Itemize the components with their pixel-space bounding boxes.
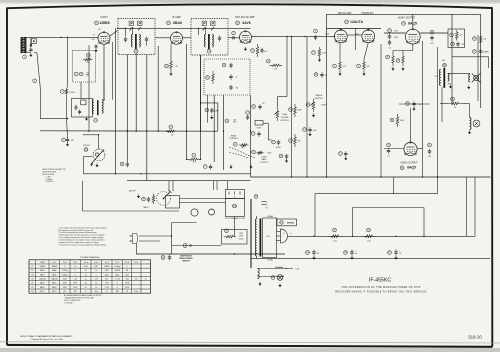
AC plug P1 xyxy=(130,234,138,244)
gnd bass 1 xyxy=(229,165,232,169)
vert x424 xyxy=(423,208,425,237)
phase inv tube V4B xyxy=(362,29,375,43)
cap C20 elect 30 xyxy=(406,101,421,111)
cap C14b xyxy=(279,154,288,163)
resistor R27 2.2M xyxy=(312,47,327,58)
wire rect to bus xyxy=(288,235,301,237)
gnd osc xyxy=(85,117,88,121)
speaker plug inner box xyxy=(226,199,245,217)
cap C3 .047 xyxy=(62,137,74,143)
resistor R7 1meg xyxy=(60,88,75,96)
selector shelf wire xyxy=(83,181,180,211)
resistor R1b xyxy=(30,43,32,47)
svg-text:1.2Meg: 1.2Meg xyxy=(114,266,120,268)
T2 trimmer arrows xyxy=(203,27,215,31)
label BASS CONTROL xyxy=(229,134,238,140)
bass linkage dashed xyxy=(230,147,255,158)
svg-text:1 MEG: 1 MEG xyxy=(69,92,75,94)
svg-text:2o: 2o xyxy=(95,283,97,285)
filter resistor R41 1.5K xyxy=(362,228,376,242)
pilot lamp PL1 xyxy=(271,275,283,281)
wire T3 to SP1 top xyxy=(448,72,470,74)
vert x466 xyxy=(466,177,468,236)
T2 trimmer 2 xyxy=(211,21,215,25)
cap C8 xyxy=(251,131,260,137)
wire R1 chain xyxy=(30,37,32,46)
svg-text:V1: V1 xyxy=(31,266,33,268)
T2 primary coil xyxy=(204,35,205,48)
wire plate V1 to T1 xyxy=(118,28,126,36)
svg-text:V5: V5 xyxy=(31,283,33,285)
V4B grid return xyxy=(354,29,356,51)
resistor R6b 82K xyxy=(289,134,302,147)
tube id V6 6AQ5 xyxy=(400,166,416,170)
bass control pot xyxy=(233,142,248,148)
wire V3 plate right xyxy=(252,36,263,38)
AVC filter box dashed xyxy=(73,51,96,82)
cap C36 xyxy=(142,197,151,203)
grid resistor labels V5 xyxy=(394,31,399,40)
svg-text:VOLUME: VOLUME xyxy=(281,117,289,119)
cathode resistor R3 xyxy=(165,58,178,72)
tuning gang C23 xyxy=(93,149,105,161)
converter tube V1 xyxy=(98,31,110,44)
svg-text:L1: L1 xyxy=(247,112,249,114)
svg-text:2o: 2o xyxy=(74,266,76,268)
svg-text:36: 36 xyxy=(473,38,475,40)
border frame top xyxy=(7,4,492,8)
svg-text:26: 26 xyxy=(387,57,389,59)
gnd pilot xyxy=(278,283,281,287)
svg-text:40MFD: 40MFD xyxy=(483,52,489,54)
cap C33 005 xyxy=(451,42,465,48)
svg-text:Pin 2: Pin 2 xyxy=(63,262,67,264)
circled 22 in AVC box xyxy=(86,53,90,57)
filament winding xyxy=(258,269,260,279)
svg-text:6BA6: 6BA6 xyxy=(52,269,56,272)
cap C10 470 xyxy=(428,143,432,158)
svg-text:.0047: .0047 xyxy=(313,130,317,132)
tube id V5 6AQ5 xyxy=(402,21,417,25)
12AU7 plate rail xyxy=(327,28,382,30)
bottom rail right xyxy=(251,258,491,260)
svg-text:TREBLE: TREBLE xyxy=(315,95,323,97)
switch B cap xyxy=(161,254,171,260)
V5 cathode drop xyxy=(393,44,413,53)
svg-text:2o: 2o xyxy=(95,287,97,289)
svg-text:15: 15 xyxy=(106,291,108,293)
svg-text:V2: V2 xyxy=(31,270,33,272)
svg-text:1 MEG: 1 MEG xyxy=(282,114,288,116)
svg-text:0: 0 xyxy=(75,270,76,272)
svg-text:2o: 2o xyxy=(85,270,87,272)
gnd C3 xyxy=(66,143,69,147)
label 1MEG BASS CONTROL xyxy=(260,156,269,164)
wire vertical x158 xyxy=(157,46,159,131)
svg-text:FM POSITIONS:: FM POSITIONS: xyxy=(42,174,55,176)
drop to selector 1 xyxy=(168,181,170,192)
horizontal wire y131 xyxy=(40,130,218,132)
volume control pot xyxy=(275,108,290,122)
power transformer primary xyxy=(255,216,256,259)
AVC slant wire xyxy=(34,53,40,88)
wire V6 row xyxy=(384,148,404,150)
AVC corner wire xyxy=(40,88,68,119)
horizontal wire y103 xyxy=(201,102,218,104)
T2 trimmer 1 xyxy=(202,21,206,25)
wire AVC box down xyxy=(80,82,82,99)
label TREBLE CONTROL xyxy=(314,95,323,100)
svg-text:© Howard W. Sams & Co., Inc. 1: © Howard W. Sams & Co., Inc. 1956 xyxy=(30,338,63,341)
wire vertical x287 xyxy=(286,37,288,93)
treble control pot xyxy=(306,99,315,112)
svg-text:40: 40 xyxy=(317,253,319,255)
wire plug to box xyxy=(139,236,172,241)
V1 pin labels xyxy=(91,28,101,41)
svg-text:470: 470 xyxy=(428,156,431,158)
resistor selector xyxy=(152,194,155,205)
V3 cathode gnd xyxy=(244,47,247,51)
wire vertical x437 xyxy=(437,47,439,177)
V3 grid cap xyxy=(232,31,236,39)
cap 40MFD on right edge xyxy=(473,48,490,55)
IF transformer T2 box xyxy=(191,19,228,56)
svg-text:150: 150 xyxy=(193,162,196,164)
svg-text:.047: .047 xyxy=(71,140,75,142)
vert x393 xyxy=(393,177,395,194)
svg-text:5.8K*: 5.8K* xyxy=(94,266,99,268)
svg-text:37: 37 xyxy=(473,51,475,53)
resistor R34 470K xyxy=(390,114,405,127)
volume pot feed xyxy=(278,93,288,108)
T1 trimmer 1 xyxy=(129,21,133,25)
cap C12b .05 xyxy=(252,103,265,110)
svg-text:2o: 2o xyxy=(85,283,87,285)
phono box outline xyxy=(172,223,197,255)
svg-text:BASS: BASS xyxy=(231,134,237,137)
audio output tube V5 xyxy=(405,28,420,44)
svg-text:0: 0 xyxy=(96,274,97,276)
wire vertical x104 osc xyxy=(103,81,105,100)
table footnotes xyxy=(64,294,102,304)
svg-text:8: 8 xyxy=(85,291,86,293)
svg-text:B: B xyxy=(234,197,235,199)
resistor R26 in box xyxy=(206,71,215,84)
filter resistor R40 1.2K xyxy=(328,228,342,242)
svg-text:N1: N1 xyxy=(266,202,268,204)
wire V4A to V4B xyxy=(347,34,362,36)
V1 bypass cap xyxy=(94,44,97,52)
resistor R37 line cord xyxy=(224,229,245,240)
svg-text:1M 7: 1M 7 xyxy=(91,39,95,41)
svg-text:2o: 2o xyxy=(85,287,87,289)
gnd filament xyxy=(258,282,261,286)
wire bus to V4A xyxy=(262,36,334,38)
wire vertical x295 xyxy=(291,37,293,177)
tone tap circle xyxy=(225,119,237,124)
label selector notes xyxy=(42,169,65,176)
wire vertical x214 xyxy=(213,95,215,162)
tube id V3 6AV6 xyxy=(236,21,251,25)
svg-text:240VAC: 240VAC xyxy=(267,215,274,218)
svg-text:2.2M: 2.2M xyxy=(322,53,326,55)
svg-text:Pin 1: Pin 1 xyxy=(52,262,56,264)
plug terminal ticks xyxy=(229,192,241,199)
svg-text:0: 0 xyxy=(64,266,65,268)
tuning gang rotor arrow xyxy=(90,135,104,166)
power transformer core xyxy=(259,219,261,257)
wire tone to right edge xyxy=(452,57,489,68)
wire vertical x478 xyxy=(477,35,479,101)
IF amp tube V2 xyxy=(171,31,183,44)
svg-text:BF30M: BF30M xyxy=(287,223,294,225)
svg-text:68: 68 xyxy=(176,66,178,68)
svg-text:CONTROL: CONTROL xyxy=(229,138,238,140)
svg-text:68: 68 xyxy=(126,270,128,272)
svg-text:3. PHONO: 3. PHONO xyxy=(46,181,54,183)
wire vertical x442 stub xyxy=(441,87,443,122)
cap C9 avc xyxy=(260,48,268,53)
wire mute to C17 xyxy=(263,123,271,140)
gnd bass 2 xyxy=(249,165,252,169)
gnd R5 xyxy=(338,72,341,76)
svg-text:1 MEG: 1 MEG xyxy=(261,156,267,158)
gnd T3 secondary xyxy=(448,84,452,89)
V3 diode load resistor xyxy=(251,44,259,57)
mute resistor xyxy=(255,121,263,130)
svg-text:Pin 5: Pin 5 xyxy=(94,262,98,264)
wire ant to converter xyxy=(24,36,99,38)
resistor R35 1K xyxy=(448,97,462,109)
svg-text:1 MEG: 1 MEG xyxy=(321,105,327,107)
wire x89 tuning xyxy=(88,45,90,131)
audio output tube V6 xyxy=(404,142,417,156)
svg-text:RADIO-PHONO: RADIO-PHONO xyxy=(180,257,194,260)
svg-text:2o: 2o xyxy=(145,279,147,281)
AVC vertical x67 xyxy=(67,37,68,137)
drop to selector 2 xyxy=(172,181,174,192)
bus wire y177 xyxy=(251,176,491,178)
AVC circle on slant xyxy=(33,79,37,83)
xfmr terminal texts xyxy=(266,202,268,210)
cathode resistor R5 4.7K xyxy=(333,59,347,72)
svg-text:2o: 2o xyxy=(85,274,87,276)
wire ant bottom xyxy=(24,51,31,53)
svg-text:1.2Meg: 1.2Meg xyxy=(62,274,68,276)
border frame left xyxy=(6,8,8,346)
wire to SP2 xyxy=(440,104,470,118)
svg-text:6AV6: 6AV6 xyxy=(242,21,250,25)
gnd SP2 xyxy=(468,130,471,134)
wire osc grid x112 xyxy=(111,42,113,100)
T2 id circle xyxy=(207,49,211,53)
resistor 270K horizontal xyxy=(266,59,282,70)
svg-text:12BE6: 12BE6 xyxy=(40,266,45,268)
cathode lead V1 down xyxy=(103,44,105,49)
svg-text:1. OFF: 1. OFF xyxy=(46,176,51,178)
svg-text:27: 27 xyxy=(397,60,399,62)
wire plug drop xyxy=(234,217,236,237)
svg-text:DET AVC AF AMP: DET AVC AF AMP xyxy=(235,16,255,19)
B+ feed line y207.5 xyxy=(353,207,425,209)
gnd selector xyxy=(137,194,140,198)
svg-text:CONTROL: CONTROL xyxy=(280,120,289,122)
horizontal wire y135 xyxy=(83,134,99,136)
oscillator padder box xyxy=(72,99,93,118)
svg-text:Pin 6: Pin 6 xyxy=(105,262,109,264)
service notes list xyxy=(59,226,108,246)
svg-text:5.8K*: 5.8K* xyxy=(105,270,110,272)
cap C15 mid xyxy=(339,151,348,160)
tuning gang id C23 xyxy=(84,148,88,152)
T1 id circle xyxy=(134,49,138,53)
T2 secondary coil xyxy=(212,35,213,48)
svg-text:20: 20 xyxy=(399,253,401,255)
svg-text:100o: 100o xyxy=(134,291,138,293)
audio section box right xyxy=(480,14,482,108)
terminal strip T xyxy=(254,195,265,205)
det tube V3 6AV6 xyxy=(240,30,252,43)
svg-text:CONTROL: CONTROL xyxy=(314,98,323,100)
V5 cathode resistor cluster xyxy=(386,53,405,66)
2nd AF tube V4A xyxy=(334,29,347,43)
svg-text:.005: .005 xyxy=(461,44,464,46)
drop to plug 2 xyxy=(216,181,218,190)
svg-text:*10.4K: *10.4K xyxy=(115,279,121,281)
svg-text:+: + xyxy=(229,197,230,199)
svg-text:V6: V6 xyxy=(31,287,33,289)
wire vertical x250 xyxy=(250,95,252,174)
svg-text:6AV6: 6AV6 xyxy=(52,273,56,276)
T1 primary feed xyxy=(132,28,134,34)
svg-text:12AU7A: 12AU7A xyxy=(39,278,46,281)
svg-text:1.2Meg: 1.2Meg xyxy=(62,270,68,272)
svg-text:Pin 7: Pin 7 xyxy=(115,262,119,264)
T2 cap right xyxy=(218,36,221,42)
svg-text:M7: M7 xyxy=(280,222,282,224)
wire T2 to V3 xyxy=(228,37,240,39)
gnd V2 cathode xyxy=(169,72,172,76)
svg-text:Pin 3: Pin 3 xyxy=(73,262,77,264)
svg-text:FRONT: FRONT xyxy=(83,145,90,147)
svg-text:BASS: BASS xyxy=(262,158,268,161)
T1 cap right xyxy=(145,37,148,43)
V4A plate lead xyxy=(340,29,342,30)
B plus arrow xyxy=(275,267,289,270)
border frame right xyxy=(491,7,493,347)
antenna terminal circle xyxy=(23,55,27,59)
resistor R32 220 xyxy=(450,30,463,41)
wire V2 plate to T2 xyxy=(183,28,199,38)
T1 secondary coil xyxy=(139,35,140,48)
plug pin circle xyxy=(233,204,237,208)
audio section box left xyxy=(326,14,328,177)
filter cap C42B xyxy=(344,249,357,259)
wire vertical x207 xyxy=(207,95,209,123)
T2 core xyxy=(208,34,210,49)
B+ rail top xyxy=(118,27,251,29)
svg-text:N1: N1 xyxy=(86,73,88,75)
wire vertical x200 xyxy=(200,55,202,131)
capacitor C1A xyxy=(29,48,32,52)
svg-text:6AQ5: 6AQ5 xyxy=(52,282,57,285)
grid cap lead V1 xyxy=(98,31,118,38)
wire vertical x115 xyxy=(115,28,117,174)
resistor R29 820K xyxy=(289,104,303,117)
osc coil L2 xyxy=(92,100,103,115)
svg-text:V3: V3 xyxy=(31,274,33,276)
filter cap C42A xyxy=(306,249,319,259)
resistor R28 22K xyxy=(357,59,371,72)
top scan strip xyxy=(0,0,500,3)
wire vertical x136 xyxy=(135,54,137,132)
svg-text:SELECTOR SW. SHOWN CCW: SELECTOR SW. SHOWN CCW xyxy=(42,169,65,171)
voltage chart table xyxy=(29,260,151,293)
IF transformer T1 box xyxy=(118,19,155,55)
circled pair in AVC box xyxy=(74,72,89,77)
svg-text:319-10: 319-10 xyxy=(468,334,482,339)
svg-text:6AQ5: 6AQ5 xyxy=(40,286,45,289)
wires xfmr to rect xyxy=(277,232,281,241)
wire V4A cathode xyxy=(339,43,341,59)
svg-text:RADIO: RADIO xyxy=(143,206,149,209)
wire x136 plug drop xyxy=(136,244,138,255)
wire vertical x146 xyxy=(146,55,148,181)
svg-text:6AQ5: 6AQ5 xyxy=(407,166,416,170)
circled 21 osc xyxy=(94,118,98,122)
cap C13b .0047 xyxy=(303,127,317,136)
scan line bottom xyxy=(0,342,500,343)
svg-text:N3: N3 xyxy=(266,208,268,210)
wire V6 top xyxy=(410,108,412,142)
drop to plug 3 xyxy=(226,181,228,190)
resistor R9 150ohm xyxy=(187,153,201,163)
wire osc cathode xyxy=(103,50,105,100)
cap C31 .02 xyxy=(388,29,392,50)
wire V2 cathode xyxy=(170,44,172,58)
vert x315 xyxy=(314,194,316,237)
T3 secondary xyxy=(448,73,449,81)
V4B plate lead xyxy=(367,29,369,30)
vert x475 xyxy=(474,177,476,236)
svg-text:6AQ5: 6AQ5 xyxy=(52,286,57,289)
svg-text:12AU7A: 12AU7A xyxy=(51,278,58,281)
cap C21 .02 xyxy=(387,143,391,157)
wire vertical x305 xyxy=(306,37,308,177)
gnd V5 cathode xyxy=(391,67,404,71)
coupling cap V4A-V4B labels xyxy=(325,34,359,36)
heavy line x251 xyxy=(250,199,252,268)
rectifier SR1 xyxy=(277,229,288,243)
svg-text:AM OFF: AM OFF xyxy=(129,190,137,193)
tube id V1 12BE6 xyxy=(95,21,110,25)
svg-text:2o: 2o xyxy=(85,279,87,281)
junction dots xyxy=(60,28,335,160)
wire vertical x217 xyxy=(217,103,219,131)
svg-text:SWITCH: SWITCH xyxy=(182,261,190,263)
front section stub xyxy=(84,157,93,174)
cap C12 in box xyxy=(222,63,233,69)
svg-text:.05: .05 xyxy=(262,103,265,105)
svg-text:V4: V4 xyxy=(31,279,33,281)
svg-text:6BA6: 6BA6 xyxy=(40,269,44,272)
svg-text:10K/85: 10K/85 xyxy=(114,270,120,272)
gnd gang xyxy=(95,163,98,167)
grid cap C4 xyxy=(314,29,318,40)
cap 1MFD cluster xyxy=(205,108,220,120)
cap C28 .05 xyxy=(314,72,327,78)
wire T1 to V2 grid xyxy=(147,38,171,46)
